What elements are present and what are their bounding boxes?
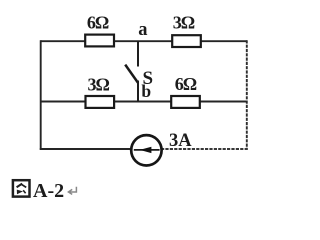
svg-text:3Ω: 3Ω xyxy=(173,13,195,33)
svg-text:3Ω: 3Ω xyxy=(87,75,109,95)
wire right vertical xyxy=(246,40,248,150)
switch S xyxy=(125,41,153,102)
resistor R1 6ohm top-left xyxy=(85,13,114,47)
wire top (node a rail) xyxy=(41,40,248,42)
svg-text:3A: 3A xyxy=(169,131,192,151)
current source 3A xyxy=(131,131,192,166)
wire bottom left segment xyxy=(40,148,132,150)
resistor R2 3ohm top-right xyxy=(172,13,201,47)
paragraph return mark xyxy=(68,187,76,195)
svg-text:a: a xyxy=(138,20,147,40)
wire left vertical xyxy=(40,40,42,150)
svg-text:6Ω: 6Ω xyxy=(87,13,109,33)
figure caption: tu character (drawn) xyxy=(13,180,30,196)
wire middle (node b rail) xyxy=(41,101,247,103)
svg-text:b: b xyxy=(141,81,151,101)
svg-text:6Ω: 6Ω xyxy=(175,74,197,94)
svg-text:A-2: A-2 xyxy=(33,180,64,202)
wire bottom right segment xyxy=(161,148,248,150)
resistor R4 6ohm mid-right xyxy=(171,74,200,108)
resistor R3 3ohm mid-left xyxy=(86,75,115,108)
